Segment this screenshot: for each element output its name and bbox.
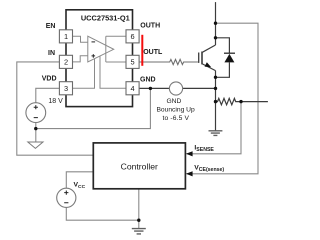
svg-text:2: 2 <box>64 58 68 67</box>
svg-text:UCC27531-Q1: UCC27531-Q1 <box>81 13 130 22</box>
svg-text:Controller: Controller <box>121 161 158 171</box>
svg-text:OUTL: OUTL <box>143 49 163 56</box>
svg-text:to -6.5 V: to -6.5 V <box>162 115 189 122</box>
svg-text:Bouncing Up: Bouncing Up <box>156 106 195 113</box>
svg-text:6: 6 <box>131 32 135 41</box>
svg-text:OUTH: OUTH <box>140 23 160 30</box>
svg-text:5: 5 <box>131 58 135 67</box>
svg-text:GND: GND <box>140 77 156 84</box>
svg-text:GND: GND <box>166 98 181 105</box>
svg-text:1: 1 <box>64 32 68 41</box>
svg-text:VDD: VDD <box>42 76 57 83</box>
svg-text:IN: IN <box>48 50 55 57</box>
svg-text:3: 3 <box>64 84 68 93</box>
svg-text:4: 4 <box>131 84 135 93</box>
svg-text:EN: EN <box>46 23 56 30</box>
svg-text:18 V: 18 V <box>48 98 63 105</box>
